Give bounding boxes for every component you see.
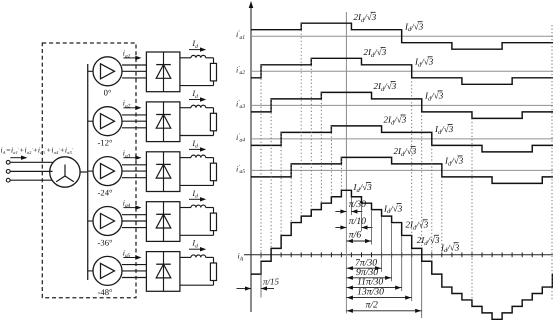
svg-text:π/2: π/2 — [366, 300, 379, 311]
svg-text:13π/30: 13π/30 — [357, 287, 384, 298]
svg-text:π/15: π/15 — [263, 276, 280, 286]
svg-text:π/6: π/6 — [349, 230, 362, 241]
svg-text:π/10: π/10 — [349, 216, 366, 227]
svg-text:0°: 0° — [104, 88, 112, 98]
svg-text:-36°: -36° — [98, 237, 113, 247]
svg-text:-48°: -48° — [98, 287, 113, 297]
svg-text:-24°: -24° — [98, 187, 113, 197]
svg-text:π/30: π/30 — [349, 199, 366, 210]
svg-text:-12°: -12° — [98, 138, 113, 148]
svg-text:iA=ia1′+ia2′+ia3′+ia4′+ia5′: iA=ia1′+ia2′+ia3′+ia4′+ia5′ — [1, 146, 74, 156]
